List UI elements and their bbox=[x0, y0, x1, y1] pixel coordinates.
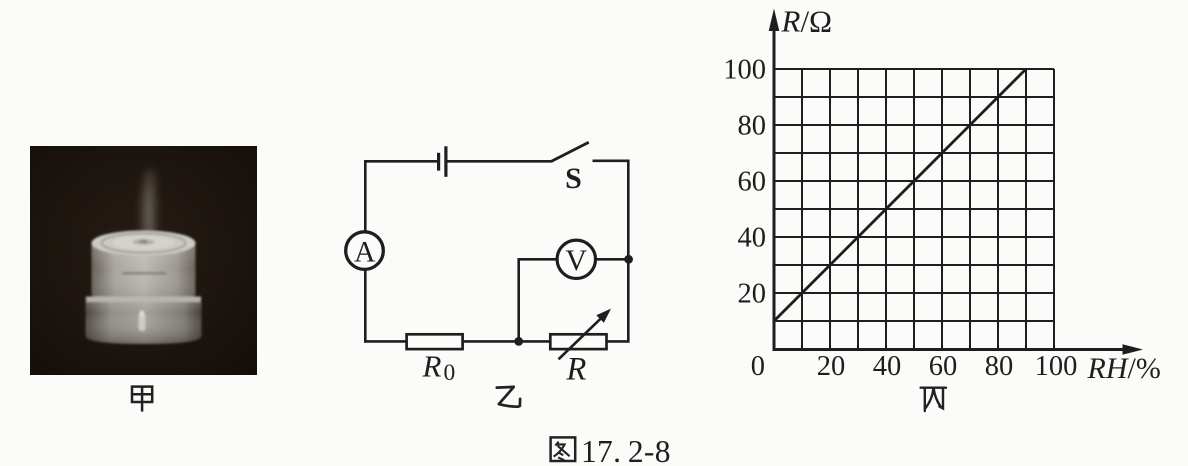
caption 图 17.2-8 bbox=[551, 437, 576, 461]
brand text line bbox=[122, 272, 166, 275]
wire: switch right contact to top-right corner bbox=[593, 160, 630, 163]
wire: left vertical (top half, to ammeter) bbox=[364, 160, 367, 232]
wire: R to bottom-right corner bbox=[607, 340, 630, 343]
junction node (right) bbox=[624, 255, 633, 264]
svg-text:20: 20 bbox=[738, 279, 767, 310]
wire: left vertical (bottom half, from ammeter) bbox=[364, 269, 367, 342]
knob on base bbox=[139, 313, 146, 331]
wire: junction up to voltmeter branch bbox=[519, 259, 558, 341]
x tick labels bbox=[817, 351, 1078, 382]
svg-text:40: 40 bbox=[738, 223, 767, 254]
resistor R0 box bbox=[407, 334, 463, 349]
y tick labels bbox=[723, 55, 766, 310]
variable resistor arrow bbox=[559, 318, 602, 360]
grid horizontal lines bbox=[774, 69, 1054, 321]
svg-text:17. 2-8: 17. 2-8 bbox=[581, 434, 671, 466]
mist plume bbox=[142, 169, 156, 248]
x axis bbox=[773, 348, 1125, 351]
y axis bbox=[773, 28, 776, 350]
svg-text:20: 20 bbox=[817, 351, 846, 382]
grid vertical lines bbox=[802, 69, 1054, 350]
wire: bottom left to resistor R0 bbox=[364, 340, 407, 343]
svg-text:0: 0 bbox=[751, 351, 765, 382]
voltmeter V1 circle bbox=[557, 240, 595, 278]
photo panel background (humidifier photo, label 甲) bbox=[30, 146, 257, 375]
svg-text:R: R bbox=[566, 352, 587, 388]
wire: junction to resistor R bbox=[519, 340, 551, 343]
svg-text:V: V bbox=[565, 244, 587, 277]
svg-text:40: 40 bbox=[873, 351, 902, 382]
svg-text:80: 80 bbox=[985, 351, 1014, 382]
data line R vs RH bbox=[774, 69, 1026, 321]
ammeter A1 circle bbox=[346, 232, 384, 270]
battery B1: long plate bbox=[444, 146, 447, 177]
label 乙 bbox=[497, 387, 520, 407]
wire: top-left horizontal from left corner to battery bbox=[364, 160, 437, 163]
switch S blade bbox=[552, 142, 589, 161]
top rim ellipse bbox=[92, 231, 196, 256]
svg-text:100: 100 bbox=[1035, 351, 1078, 382]
humidifier base (lower cylinder) bbox=[86, 297, 202, 345]
svg-text:RH/%: RH/% bbox=[1087, 352, 1161, 385]
svg-text:80: 80 bbox=[738, 111, 767, 142]
battery B1: short plate bbox=[437, 153, 440, 171]
svg-text:A: A bbox=[354, 237, 376, 269]
svg-text:60: 60 bbox=[738, 167, 767, 198]
humidifier upper body bbox=[92, 243, 196, 301]
svg-text:S: S bbox=[565, 162, 582, 195]
label 丙 bbox=[921, 388, 946, 411]
svg-text:100: 100 bbox=[723, 55, 766, 86]
resistor R box (variable) bbox=[550, 334, 606, 349]
wire: R0 to junction bbox=[463, 340, 519, 343]
junction node (bottom) bbox=[514, 337, 523, 346]
label 甲 bbox=[132, 387, 152, 412]
wire: battery to switch bbox=[448, 160, 553, 163]
svg-text:R0: R0 bbox=[422, 349, 456, 387]
wire: voltmeter to right junction bbox=[594, 258, 628, 261]
svg-text:R/Ω: R/Ω bbox=[781, 4, 833, 39]
wire: right vertical bbox=[627, 160, 630, 343]
svg-text:60: 60 bbox=[929, 351, 958, 382]
